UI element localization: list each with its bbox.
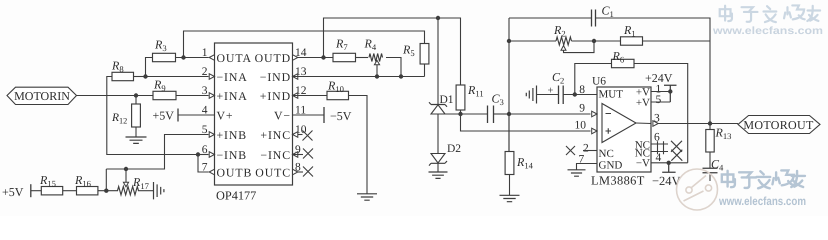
resistor R9 bbox=[153, 77, 176, 99]
wire pin6 stub bbox=[198, 154, 209, 156]
resistor R3 bbox=[153, 38, 176, 62]
junction output node bbox=[708, 121, 712, 125]
resistor R13 bbox=[706, 124, 732, 153]
junction top rail D1 bbox=[436, 16, 440, 20]
power -5V pin11 terminal bbox=[293, 107, 352, 123]
potentiometer R17 bbox=[118, 175, 150, 195]
svg-text:3: 3 bbox=[202, 85, 208, 97]
resistor R15 bbox=[39, 173, 63, 195]
pin 3 marker bbox=[209, 93, 214, 99]
svg-text:6: 6 bbox=[202, 144, 208, 156]
svg-text:−IND: −IND bbox=[260, 70, 291, 84]
wire R3 left leg bbox=[146, 58, 153, 77]
wire pin9 line bbox=[509, 113, 591, 115]
resistor R12 bbox=[111, 96, 140, 128]
junction R11 bottom bbox=[458, 112, 462, 116]
pin 6 NC stubs U6 bbox=[651, 141, 682, 161]
svg-text:OUTC: OUTC bbox=[255, 165, 291, 179]
wire R11 stub bbox=[460, 110, 462, 114]
pin 7 marker bbox=[209, 169, 214, 175]
svg-text:−INB: −INB bbox=[217, 148, 248, 162]
svg-text:7: 7 bbox=[202, 162, 208, 174]
node MOTOROUT connector bbox=[738, 116, 820, 134]
wire pin6 to pin7 bbox=[198, 155, 209, 173]
wire C3 to pin9 node bbox=[494, 113, 510, 115]
svg-text:+24V: +24V bbox=[645, 71, 673, 85]
wire apex to pin3 bbox=[636, 122, 651, 125]
wire pin10 jog bbox=[461, 114, 591, 131]
wire C1 top left bbox=[509, 17, 592, 19]
svg-text:OP4177: OP4177 bbox=[216, 189, 256, 203]
pin 2 marker bbox=[209, 74, 214, 80]
R4 wiper arrow bbox=[374, 60, 379, 76]
svg-text:+INC: +INC bbox=[260, 128, 291, 142]
pin 2 no-connect U6 bbox=[566, 146, 597, 155]
svg-text:NC: NC bbox=[599, 148, 614, 160]
R17 wiper arrow bbox=[123, 169, 128, 187]
pin 10 marker bbox=[293, 132, 298, 138]
junction R17 wiper node bbox=[124, 167, 128, 171]
power +5V pin4 terminal bbox=[153, 109, 215, 123]
ground mid bbox=[357, 194, 377, 200]
wire OUTA feedback rail bbox=[184, 31, 425, 58]
wire R17 to ground bbox=[138, 190, 154, 192]
svg-text:4: 4 bbox=[202, 105, 208, 117]
wire R2 to R1 bbox=[594, 40, 621, 42]
wire to R2 bbox=[509, 40, 556, 42]
capacitor C4 bbox=[703, 152, 725, 181]
svg-text:−INA: −INA bbox=[217, 70, 248, 84]
resistor R8 bbox=[111, 59, 134, 81]
pin 6 marker bbox=[209, 152, 214, 158]
svg-text:D1: D1 bbox=[440, 94, 454, 106]
wire pin14 to R7 bbox=[298, 55, 333, 59]
svg-text:D2: D2 bbox=[447, 143, 461, 155]
svg-text:1: 1 bbox=[202, 47, 208, 59]
svg-text:8: 8 bbox=[579, 84, 585, 96]
wire node line D1-R11-C3 bbox=[438, 113, 488, 115]
svg-text:U6: U6 bbox=[592, 76, 606, 88]
chassis ground C2 bbox=[526, 86, 536, 104]
svg-text:+INB: +INB bbox=[217, 128, 248, 142]
capacitor C3 bbox=[488, 91, 504, 123]
svg-text:+5V: +5V bbox=[2, 185, 24, 199]
U6 inner labels bbox=[599, 87, 651, 172]
wire R10 to ground bbox=[349, 96, 368, 194]
wire pin12 to R10 bbox=[293, 95, 328, 97]
zener diode D2 bbox=[429, 143, 461, 166]
capacitor C2 polarized bbox=[548, 70, 565, 104]
svg-text:OUTB: OUTB bbox=[217, 165, 253, 179]
op-amp U OP4177 body bbox=[215, 43, 293, 203]
op-amp U1 pin numbers bbox=[202, 47, 307, 174]
wire R6 right leg bbox=[634, 64, 688, 163]
wire feedback left vertical bbox=[508, 18, 510, 152]
ground under R12 bbox=[126, 127, 147, 143]
wire R3 to pin1 junction bbox=[176, 55, 209, 59]
wire R1 to output vertical bbox=[643, 40, 711, 42]
wire R16 to junction bbox=[98, 190, 118, 192]
pin 8 marker bbox=[293, 169, 298, 175]
wire R6 left leg bbox=[575, 64, 612, 95]
pin 3 marker U6 bbox=[653, 121, 658, 127]
wire pin13 line bbox=[293, 74, 425, 78]
potentiometer R4 bbox=[364, 37, 383, 62]
chassis ground after R17 bbox=[154, 182, 164, 199]
U6 pin numbers bbox=[575, 84, 662, 166]
wire C1 top right bbox=[596, 18, 711, 123]
resistor R1 bbox=[621, 23, 643, 45]
resistor R6 bbox=[612, 49, 635, 68]
pin 9 no-connect bbox=[293, 149, 314, 159]
resistor R14 bbox=[505, 114, 534, 175]
wire R9 to pin3 bbox=[176, 95, 209, 97]
wire D1 node to D2 bbox=[437, 114, 439, 153]
svg-text:+INA: +INA bbox=[217, 89, 248, 103]
pin 7 GND leg bbox=[577, 164, 598, 170]
watermark text bottom bbox=[718, 170, 806, 208]
svg-text:www.elecfans.com: www.elecfans.com bbox=[712, 25, 823, 37]
wire pin5 leg bbox=[106, 135, 208, 170]
pin 9 marker U6 bbox=[592, 111, 597, 117]
svg-text:LM3886T: LM3886T bbox=[591, 174, 645, 188]
svg-text:OUTD: OUTD bbox=[255, 51, 291, 65]
wire bias vertical bbox=[105, 169, 107, 191]
pin 13 marker bbox=[293, 74, 298, 80]
svg-text:www.elecfans.com: www.elecfans.com bbox=[718, 194, 806, 208]
svg-text:−5V: −5V bbox=[330, 109, 352, 123]
junction pin6 node bbox=[196, 152, 200, 156]
svg-text:MOTOROUT: MOTOROUT bbox=[743, 118, 814, 132]
resistor R11 bbox=[456, 83, 484, 110]
svg-text:MOTORIN: MOTORIN bbox=[14, 89, 70, 103]
pin 1 marker bbox=[209, 55, 214, 61]
pin 5 marker bbox=[209, 132, 214, 138]
wire R7 to R4 bbox=[356, 57, 369, 59]
resistor R7 bbox=[333, 37, 356, 62]
pin 8 no-connect bbox=[298, 167, 313, 177]
junction R16 R17 node bbox=[104, 189, 108, 193]
svg-text:2: 2 bbox=[202, 66, 208, 78]
svg-text:V−: V− bbox=[274, 108, 291, 122]
power +24V terminal bbox=[645, 71, 677, 102]
junction on MOTORIN line at R12 bbox=[134, 93, 138, 97]
svg-text:−INC: −INC bbox=[260, 148, 291, 162]
pin 10 no-connect bbox=[298, 131, 313, 141]
svg-text:+V: +V bbox=[636, 97, 650, 109]
op-amp U1 pin names bbox=[217, 51, 292, 180]
U6 triangle bbox=[602, 104, 636, 143]
ground under R14 bbox=[500, 175, 520, 202]
power -24V terminal pin4 bbox=[651, 161, 688, 188]
wire D2 to ground bbox=[437, 163, 439, 172]
wire C2 to pin8 bbox=[563, 92, 597, 96]
resistor R16 bbox=[74, 173, 98, 195]
zener diode D1 bbox=[429, 94, 454, 114]
ground under D2 bbox=[429, 172, 448, 178]
svg-text:OUTA: OUTA bbox=[217, 51, 252, 65]
svg-text:+5V: +5V bbox=[153, 109, 175, 123]
svg-text:+IND: +IND bbox=[260, 89, 291, 103]
svg-text:−V: −V bbox=[636, 158, 650, 170]
watermark logo circle bbox=[677, 169, 718, 210]
svg-text:+: + bbox=[548, 86, 554, 97]
svg-text:10: 10 bbox=[575, 120, 587, 132]
pin 9 marker bbox=[293, 152, 298, 158]
pin 12 marker bbox=[293, 93, 298, 99]
amplifier U6 LM3886T body bbox=[591, 76, 651, 188]
svg-text:4: 4 bbox=[656, 152, 662, 164]
wire pin3 to MOTOROUT bbox=[658, 123, 738, 125]
wire R15 to R16 bbox=[63, 190, 77, 192]
power +5V bottom terminal bbox=[2, 184, 41, 199]
pin 14 marker bbox=[293, 55, 298, 61]
svg-text:GND: GND bbox=[599, 160, 623, 172]
resistor R10 bbox=[327, 79, 349, 100]
R2 wiper arrow bbox=[561, 41, 594, 53]
junction R2 line bbox=[507, 39, 511, 43]
svg-text:9: 9 bbox=[579, 103, 585, 115]
node MOTORIN connector bbox=[7, 87, 77, 104]
wire R8 to node A junction bbox=[134, 74, 148, 78]
wire MOTORIN to R9 and pin3 bbox=[77, 95, 154, 97]
wire feedback OUTB vertical bbox=[107, 77, 198, 155]
svg-text:5: 5 bbox=[656, 94, 662, 106]
resistor R5 bbox=[402, 43, 429, 65]
wire node A to pin2 bbox=[146, 76, 209, 78]
wire R4 to pin13 line bbox=[386, 58, 401, 77]
ground U6 pin7 bbox=[568, 170, 586, 176]
wire R5 to pin13 line bbox=[424, 64, 426, 77]
junction R2 right bbox=[572, 39, 597, 43]
wire top rail to D1 bbox=[437, 18, 439, 105]
potentiometer R2 bbox=[553, 23, 571, 45]
svg-text:5: 5 bbox=[202, 124, 208, 136]
capacitor C1 bbox=[592, 3, 614, 26]
wire ground to C2 bbox=[537, 94, 559, 96]
junction pin9 node bbox=[507, 112, 511, 116]
watermark text top right bbox=[712, 5, 823, 37]
svg-text:V+: V+ bbox=[217, 108, 234, 122]
wire OUTD top rail bbox=[324, 18, 461, 85]
svg-text:MUT: MUT bbox=[599, 89, 624, 101]
pin 10 marker U6 bbox=[592, 128, 597, 134]
